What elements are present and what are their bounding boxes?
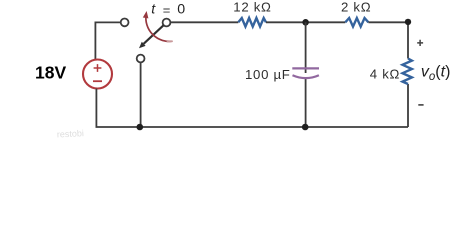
svg-text:18V: 18V [35,62,66,82]
top rail: pivot to 12k resistor [170,21,238,23]
svg-text:100 µF: 100 µF [245,67,291,82]
svg-text:2 kΩ: 2 kΩ [341,0,371,15]
capacitor C1 top plate [292,67,319,69]
resistor R3 4 kOhm vertical zigzag [403,59,412,85]
top rail: 12k to 2k [266,21,345,23]
junction dot bottom of switch branch [137,124,144,131]
right vertical wire (top rail corner down to 4k, and 4k to bottom rail) [407,22,409,127]
capacitor C1 bottom curved plate [293,75,319,78]
bottom rail wire [96,126,409,128]
wire left loop from source top to switch terminal [95,22,121,60]
resistor R2 2 kOhm zigzag [345,18,368,27]
wire source bottom to bottom rail [95,89,97,127]
svg-text:restobi: restobi [57,128,85,139]
svg-text:=: = [163,2,171,17]
minus sign of output voltage [418,104,423,106]
switch lower contact circle [137,55,145,63]
red arc fading tail [167,40,173,42]
node A junction dot top of capacitor [302,19,309,26]
plus sign inside source [94,64,102,72]
svg-text:0: 0 [177,2,185,18]
red motion arc of switch [146,15,173,42]
red arc arrowhead [143,11,149,18]
switch arm arrowhead [139,42,146,48]
minus sign inside source [93,80,102,82]
resistor R1 12 kOhm zigzag [238,18,266,27]
svg-text:12 kΩ: 12 kΩ [233,0,271,15]
voltage source V1 18V [83,60,112,89]
switch arm [144,25,164,44]
svg-text:vo(t): vo(t) [421,63,451,82]
junction dot bottom of capacitor [302,124,309,131]
svg-text:4 kΩ: 4 kΩ [370,67,400,82]
plus sign of output voltage [417,40,423,46]
label t = 0 [151,2,185,18]
wire lower contact to bottom rail [140,62,142,127]
capacitor C1 branch wires [305,22,307,127]
junction dot at top-right corner [405,19,411,25]
switch pivot circle [163,19,171,27]
top rail: 2k to right corner [368,21,408,23]
node: switch upper-left terminal (open circle) [121,19,129,27]
